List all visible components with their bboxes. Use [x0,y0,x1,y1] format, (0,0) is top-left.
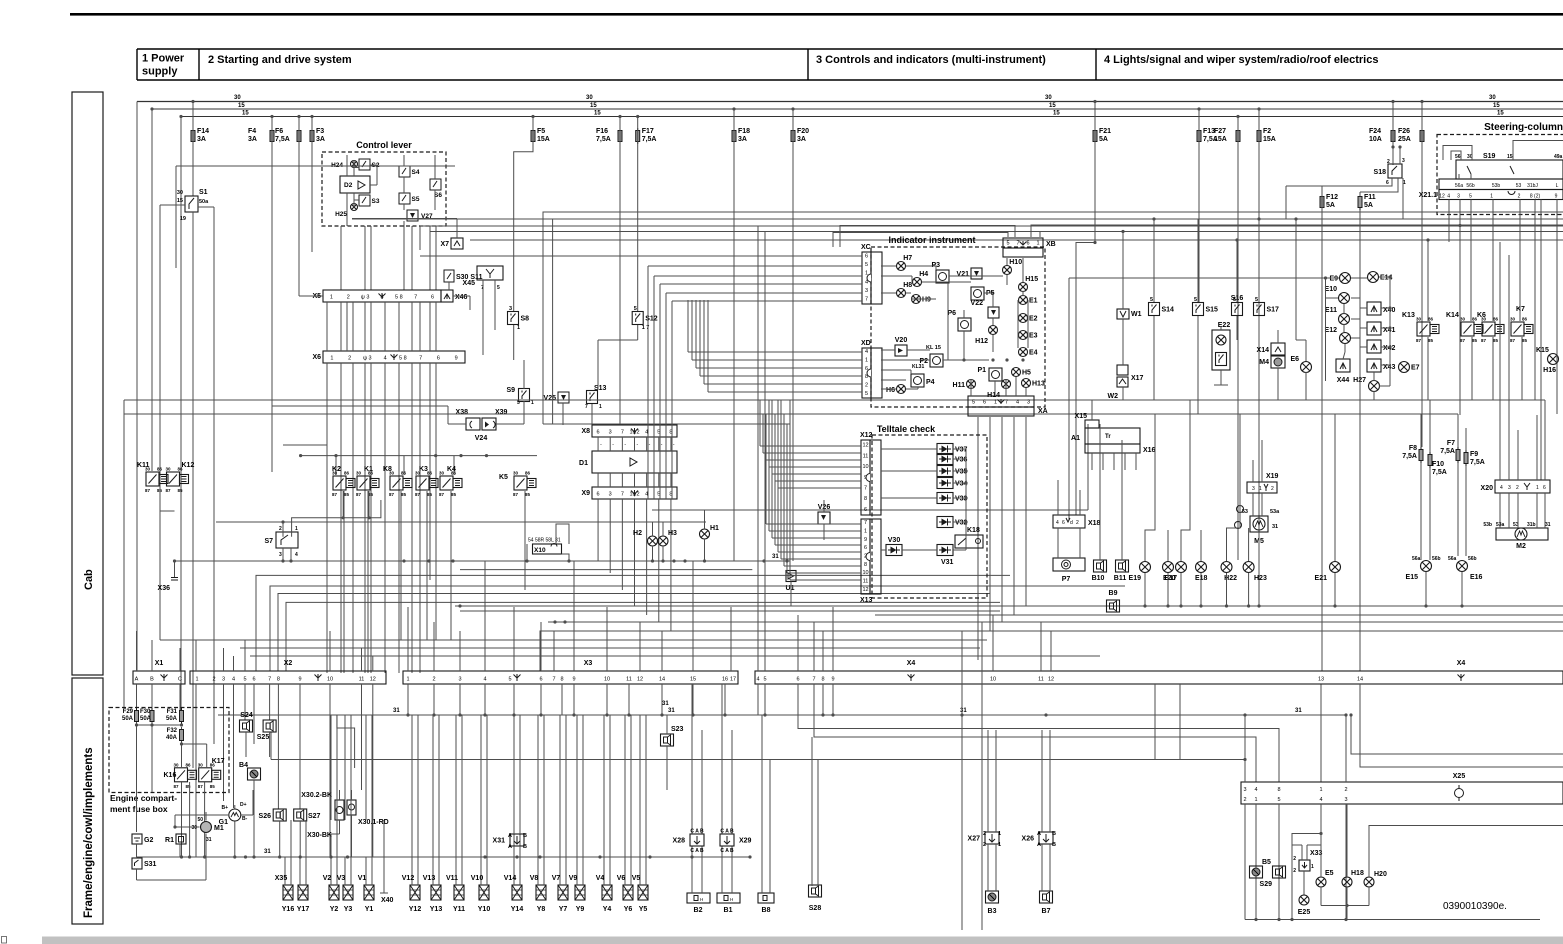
svg-text:XB: XB [1046,241,1056,248]
svg-text:10: 10 [604,677,610,683]
wire [1286,185,1322,187]
wire [653,276,655,499]
wire [271,759,1245,761]
wire [496,423,524,425]
junction [763,713,766,716]
svg-text:H6: H6 [886,387,895,394]
valve Y3 [343,885,353,900]
junction [539,713,542,716]
wire [573,561,575,671]
wire [670,437,672,451]
wire [922,281,971,283]
svg-text:F21: F21 [1099,128,1111,135]
junction [1388,306,1391,309]
wire [556,524,569,544]
svg-text:5: 5 [243,677,246,683]
wire [1425,572,1427,606]
svg-text:4: 4 [1500,485,1503,491]
switch S13 [587,391,598,404]
svg-text:6: 6 [597,430,600,436]
wire [708,391,862,393]
svg-text:X17: X17 [1131,375,1144,382]
wire [151,109,153,471]
svg-text:B: B [523,844,527,850]
junction [1344,713,1347,716]
svg-text:C A B: C A B [690,848,704,854]
wire [513,820,515,885]
wire [1022,258,1024,282]
wiper W1 [1117,309,1129,319]
wire [233,684,235,808]
wire [935,266,937,270]
wire [432,820,434,885]
svg-text:B: B [523,833,527,839]
wire [630,715,632,820]
junction [748,855,751,858]
svg-text:1: 1 [599,404,602,410]
connector X6 [323,351,465,363]
svg-text:10: 10 [990,677,996,683]
junction [458,713,461,716]
wire [1513,141,1563,161]
wire [136,869,138,880]
wire [691,300,693,360]
relay K13 [1417,322,1430,336]
wire [403,177,405,193]
wire [367,491,369,673]
lamp E25 [1299,895,1309,905]
connector X45 [477,266,503,280]
wire [448,282,450,290]
svg-text:S13: S13 [594,385,607,392]
svg-text:F5: F5 [537,128,545,135]
svg-text:3: 3 [509,306,512,312]
wire [1465,466,1467,556]
wire [365,715,367,820]
wire [370,184,377,186]
wire [290,548,292,561]
junction [299,855,302,858]
fuse F27 [1236,128,1240,144]
wire [364,226,366,290]
fuse F6 [297,128,301,144]
component S29 [1273,866,1286,878]
svg-text:56a: 56a [1448,556,1457,562]
wire [987,730,989,832]
svg-text:8: 8 [864,562,867,568]
junction [434,454,437,457]
wire [1360,684,1563,767]
junction [1257,604,1260,607]
wire [688,351,862,353]
svg-text:53b: 53b [1492,183,1501,189]
wire [218,714,1345,716]
wire [1069,277,1339,279]
fuse F18 [732,128,736,144]
lamp E9 [1340,273,1351,284]
junction [1236,115,1239,118]
wire [692,684,694,715]
wire [353,193,355,207]
wire [1427,240,1429,321]
fuse F10 [1428,452,1432,468]
svg-text:M1: M1 [214,825,224,832]
wire [786,561,788,571]
svg-text:3A: 3A [797,136,806,143]
wire [411,302,413,351]
wire [1091,453,1093,470]
wire [181,744,183,768]
wire [136,631,138,671]
svg-text:H14: H14 [987,392,1000,399]
svg-text:Frame/engine/cowl/implements: Frame/engine/cowl/implements [83,747,95,918]
wire [1392,102,1394,166]
wire [253,684,255,744]
valve Y2 [329,885,339,900]
wire [666,292,862,294]
svg-text:V3: V3 [337,875,346,882]
svg-text:12: 12 [370,677,376,683]
wire [514,117,533,312]
wire [1167,530,1169,561]
wire [1296,339,1306,341]
svg-text:3A: 3A [316,136,325,143]
wire [1360,178,1398,192]
wire [1521,337,1523,400]
valve Y12 [410,885,420,900]
wire [953,458,966,460]
svg-text:C: C [178,677,182,683]
wire [1443,146,1472,161]
junction [1391,100,1394,103]
wire [1457,414,1459,447]
wire [213,207,215,744]
svg-text:F2: F2 [1263,128,1271,135]
group Telltale check dashed box [872,435,987,598]
svg-text:30: 30 [174,762,180,767]
wire [175,826,200,828]
wire [136,722,138,832]
svg-text:5A: 5A [1099,136,1108,143]
wire [278,594,990,672]
svg-text:85: 85 [210,784,216,789]
svg-text:87: 87 [1510,338,1516,343]
connector X14 M4 [1271,343,1285,355]
svg-text:ment fuse box: ment fuse box [110,804,168,814]
wire [778,551,861,553]
wire [350,820,352,885]
svg-text:1: 1 [531,400,534,406]
svg-text:E16: E16 [1470,574,1483,581]
wire [963,331,965,360]
diode V26 [818,512,830,524]
wire [1049,844,1051,891]
svg-text:F18: F18 [738,128,750,135]
wire [540,631,1563,671]
wire [1154,684,1156,760]
wire [1429,468,1431,560]
component B3 [986,891,999,903]
wire [326,363,328,445]
gauge P6 [958,318,971,331]
wire [661,684,663,715]
wire [371,715,373,820]
switch S2 [359,159,370,170]
svg-text:S17: S17 [1267,307,1280,314]
wire [630,820,632,885]
svg-text:X26: X26 [1022,836,1035,843]
wire [455,820,457,885]
svg-text:56b: 56b [1432,556,1441,562]
wire [696,367,862,369]
svg-text:X4: X4 [907,660,916,667]
wire [151,640,153,671]
svg-text:2: 2 [1271,486,1274,492]
svg-text:X39: X39 [495,409,508,416]
wire [370,226,372,290]
wire [783,414,785,566]
junction [252,855,255,858]
svg-text:4: 4 [295,552,298,558]
svg-text:4: 4 [865,349,868,355]
svg-text:V7: V7 [552,875,561,882]
svg-text:30: 30 [1510,317,1516,322]
lamp H23 [1243,562,1254,573]
wire [1301,845,1303,860]
wire [639,715,641,820]
valve Y13 [431,885,441,900]
wire [670,473,672,487]
wire [1091,400,1093,420]
svg-text:2: 2 [1293,868,1296,874]
wire [559,715,561,820]
junction [334,454,337,457]
wire [1459,200,1461,416]
wire [704,510,706,529]
svg-text:X35: X35 [275,875,288,882]
lamp H5 [1012,368,1021,377]
wire [721,846,723,893]
wire [881,275,912,277]
lamp H18 [1342,877,1352,887]
wire [609,499,611,573]
wire [213,684,215,744]
wire [881,549,886,551]
svg-text:12: 12 [1048,677,1054,683]
wire [346,155,348,176]
svg-text:R1: R1 [165,837,174,844]
wire [435,302,437,351]
svg-text:Y10: Y10 [478,906,491,913]
wire [411,226,413,290]
wire [1200,530,1202,561]
wire [417,715,419,820]
wire [548,621,1563,623]
wire [1325,278,1327,381]
wire [768,424,770,531]
svg-text:F8: F8 [1409,445,1417,452]
lamp E20 [1163,562,1174,573]
svg-text:7,5A: 7,5A [1470,459,1485,466]
wire [1556,200,1558,415]
group Steering-column dashed box [1437,135,1563,215]
svg-text:S8: S8 [521,316,530,323]
svg-text:11: 11 [863,453,869,459]
relay K18 [955,535,983,548]
wire [1025,417,1027,606]
wire [775,480,861,482]
svg-text:4: 4 [756,677,759,683]
wire [460,610,1000,612]
junction [723,713,726,716]
wire [624,715,626,820]
wire [433,684,435,715]
switch S19 block [1456,160,1563,179]
junction [660,713,663,716]
wire [759,400,761,446]
wire [634,473,636,487]
connector X25 [1241,782,1563,804]
wire [823,524,825,540]
valve Y7 [558,885,568,900]
wire [766,459,861,461]
component S27 [294,809,307,821]
wire [469,296,471,310]
svg-text:30: 30 [177,190,183,196]
junction [1424,604,1427,607]
svg-text:X6: X6 [312,354,321,361]
svg-text:B2: B2 [694,907,703,914]
wire [671,301,673,499]
wire [646,499,648,615]
junction [270,115,273,118]
valve Y6 [623,885,633,900]
svg-text:15: 15 [1493,103,1500,109]
junction [150,107,153,110]
wire [1379,276,1390,278]
wire [486,820,488,885]
wire [1255,804,1257,920]
wire [965,449,967,550]
svg-text:6: 6 [983,400,986,406]
svg-text:Y11: Y11 [453,906,465,913]
wire [354,199,359,201]
component B5 [1250,866,1263,878]
wire [429,456,431,475]
wire [953,470,966,472]
fuse F16 [618,128,622,144]
wire [875,614,1563,616]
svg-text:14: 14 [1357,677,1363,683]
svg-text:Steering-column: Steering-column [1484,122,1563,133]
wire [1544,493,1546,528]
lamp E21 [1330,562,1341,573]
svg-text:1: 1 [295,526,298,532]
svg-text:H16: H16 [1543,367,1556,374]
junction [1247,604,1250,607]
svg-text:F4: F4 [248,128,256,135]
bus 15 upper [152,108,1563,110]
lamp E14 [1368,272,1379,283]
wire [790,579,861,581]
wire [342,491,344,518]
wire [691,684,693,834]
svg-text:30: 30 [1460,317,1466,322]
wire [175,560,791,562]
svg-text:1: 1 [865,358,868,364]
svg-text:87: 87 [1416,338,1422,343]
switch S12 [632,312,643,325]
svg-text:B10: B10 [1092,575,1105,582]
wire [213,631,215,671]
wire [447,406,449,424]
svg-text:Control lever: Control lever [356,140,412,150]
wire [1153,316,1155,400]
svg-text:13: 13 [1318,677,1324,683]
wire [634,437,636,451]
svg-text:86: 86 [186,762,192,767]
wire [480,715,482,820]
wire [1248,528,1250,561]
lamp H24 [351,161,358,168]
svg-text:85: 85 [1493,338,1499,343]
svg-text:F6: F6 [275,128,283,135]
svg-text:E4: E4 [1029,350,1038,357]
wire [1536,415,1538,480]
wire [305,820,307,885]
svg-text:X27: X27 [968,836,981,843]
wire [136,844,138,858]
svg-text:2: 2 [1076,520,1079,526]
svg-text:E5: E5 [1325,870,1334,877]
wire [1334,573,1336,606]
wire [771,414,773,474]
valve Y4 [602,885,612,900]
wire [774,414,776,545]
wire [1320,804,1322,834]
wire [733,109,735,561]
wire [364,363,366,673]
svg-text:V1: V1 [358,875,367,882]
svg-text:6: 6 [437,356,440,362]
wire [775,544,861,546]
lamp H16 [1548,354,1559,365]
wire [953,448,966,450]
wire [1420,463,1422,560]
wire [1237,117,1239,561]
svg-text:S5: S5 [412,196,420,203]
diode V25 [558,392,569,403]
svg-text:30: 30 [586,95,593,101]
junction [1021,358,1024,361]
svg-text:E2: E2 [1029,316,1038,323]
wire [963,310,965,318]
wire [1334,414,1336,561]
junction [1349,713,1352,716]
wire [917,387,919,389]
wire [1049,730,1051,832]
wire [792,109,794,561]
svg-text:15: 15 [177,198,183,204]
generator G2 [132,834,142,844]
fuse F5 [531,128,535,144]
wire [621,437,623,451]
junction [1388,326,1391,329]
svg-text:C A B: C A B [720,829,734,835]
wire [419,302,421,351]
svg-text:M4: M4 [1259,359,1269,366]
lamp E12 [1340,333,1351,344]
